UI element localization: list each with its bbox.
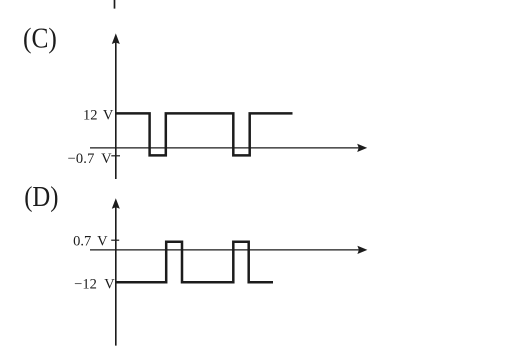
svg-text:(C): (C) [23,23,57,55]
plot C waveform trace [116,113,293,155]
plot C y-axis arrowhead [112,33,120,44]
plot C tick -0.7 V [111,155,120,157]
plot D x-axis [90,249,360,251]
plot D tick 0.7 V [111,239,119,241]
plot D waveform trace [116,242,273,283]
plot D y-axis arrowhead [112,198,120,209]
svg-text:−0.7 V: −0.7 V [67,151,112,167]
plot C y-axis [115,40,117,179]
plot D y-axis [115,205,117,346]
svg-text:(D): (D) [24,181,58,213]
plot C x-axis [90,147,360,149]
plot C x-axis arrowhead [357,144,367,152]
svg-text:−12 V: −12 V [74,277,115,293]
svg-text:0.7 V: 0.7 V [73,233,108,249]
svg-text:12 V: 12 V [83,107,114,123]
plot D x-axis arrowhead [357,246,367,254]
axis remnant of plot above [114,0,116,9]
